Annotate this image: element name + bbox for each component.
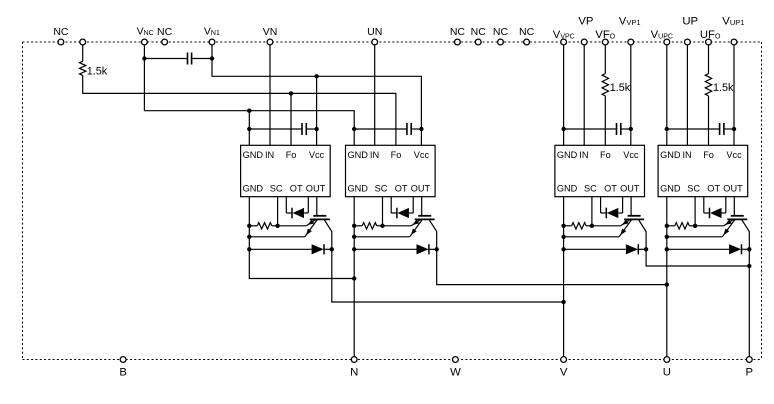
- op-amp U3 gate driver IC: [555, 145, 645, 196]
- svg-text:NC: NC: [493, 26, 509, 38]
- node collector junction Q4: [747, 247, 751, 251]
- svg-text:U: U: [663, 367, 671, 379]
- terminal VVPC: [561, 39, 567, 45]
- node junction GND4 at C5 row: [665, 127, 669, 131]
- transistor Q2 IGBT: [418, 215, 431, 217]
- module outline dotted border bottom: [23, 359, 762, 361]
- wire Q4 collector to terminal P: [748, 249, 750, 359]
- svg-text:VN: VN: [263, 26, 278, 38]
- terminal NC: [58, 39, 64, 45]
- resistor R-sense Q2: [354, 225, 362, 227]
- wire SC pin drop U2: [382, 197, 384, 226]
- wire R3 to Fo4: [708, 96, 710, 145]
- op-amp U1 gate driver IC: [241, 145, 331, 196]
- node rail1 at sense row: [247, 224, 251, 228]
- resistor R2 1.5k: [602, 74, 608, 96]
- wire OUT pin to gate Q1: [316, 197, 318, 216]
- terminal VN1: [209, 39, 215, 45]
- svg-text:B: B: [119, 367, 127, 379]
- wire VUPC to GND4: [666, 42, 668, 145]
- terminal V: [561, 357, 567, 363]
- node rail3 at diode row: [561, 247, 565, 251]
- node junction GND1 at C2 row: [247, 127, 251, 131]
- terminal UFO: [706, 39, 712, 45]
- resistor R1 1.5k: [80, 61, 86, 75]
- node SC junction U3: [590, 224, 594, 228]
- wire Q2 collector to U column: [437, 249, 667, 284]
- svg-text:1.5k: 1.5k: [610, 82, 631, 94]
- node rail2 at diode row: [352, 247, 356, 251]
- node rail4 at diode row: [665, 247, 669, 251]
- svg-text:IN: IN: [265, 150, 274, 160]
- svg-text:GND: GND: [660, 150, 681, 160]
- svg-text:P: P: [746, 367, 754, 379]
- terminal VN: [267, 39, 273, 45]
- terminal NC 6: [524, 39, 530, 45]
- svg-text:W: W: [450, 367, 461, 379]
- resistor R-sense Q3: [564, 225, 572, 227]
- terminal B: [120, 357, 126, 363]
- node junction rail1 to N column: [352, 276, 356, 280]
- module outline dotted border right: [761, 42, 763, 360]
- node junction Q3 collector at P column: [747, 264, 751, 268]
- svg-text:GND: GND: [660, 184, 681, 194]
- diode D-FW Q2: [354, 248, 416, 250]
- node rail4 at emitter row: [665, 235, 669, 239]
- terminal UP: [685, 39, 691, 45]
- transistor Q3 IGBT: [628, 215, 641, 217]
- svg-text:IN: IN: [370, 150, 379, 160]
- module outline dotted border top: [23, 41, 762, 43]
- wire Vcc1 pin drop: [316, 76, 318, 145]
- wire SC pin drop U1: [277, 197, 279, 226]
- svg-text:VP: VP: [578, 16, 593, 28]
- svg-text:SC: SC: [270, 184, 283, 194]
- terminal U: [664, 357, 670, 363]
- diode D-FW Q1: [249, 248, 311, 250]
- wire emitter row Q2: [354, 236, 410, 238]
- wire U3 emitter rail down to terminal V: [563, 197, 565, 360]
- wire sense row to emitter arrow Q4: [695, 225, 724, 227]
- diode D-OT U3: [600, 197, 602, 213]
- svg-text:Fo: Fo: [600, 150, 611, 160]
- svg-text:OT: OT: [395, 184, 408, 194]
- node rail1 at emitter row: [247, 235, 251, 239]
- terminal NC 4: [475, 39, 481, 45]
- node junction H3 at Fo1: [289, 91, 293, 95]
- svg-text:NC: NC: [519, 26, 535, 38]
- wire VN1 vertical and H2 to Vcc2: [212, 42, 421, 145]
- svg-text:Fo: Fo: [286, 150, 297, 160]
- resistor R-sense Q4: [667, 225, 675, 227]
- wire SC pin drop U4: [694, 197, 696, 226]
- svg-text:UN: UN: [367, 26, 382, 38]
- capacitor C4 (GND3-Vcc3): [564, 128, 616, 130]
- node junction H2 at Vcc1: [314, 74, 318, 78]
- svg-text:IN: IN: [683, 150, 692, 160]
- node junction Vcc4 at C5 row: [732, 127, 736, 131]
- wire U4 emitter rail down to terminal U: [666, 197, 668, 360]
- wire UP to IN4: [686, 42, 688, 145]
- diode D-OT U4: [703, 197, 705, 213]
- diode D-FW Q4: [667, 248, 729, 250]
- terminal VVP1: [628, 39, 634, 45]
- terminal P: [746, 357, 752, 363]
- wire Q1 collector to V column: [332, 249, 564, 302]
- terminal N: [351, 357, 357, 363]
- svg-text:SC: SC: [584, 184, 597, 194]
- wire VVP1 to Vcc3: [630, 42, 632, 145]
- node junction Vcc1 at C2 row: [314, 127, 318, 131]
- terminal W: [453, 357, 459, 363]
- wire sense row to emitter arrow Q1: [278, 225, 307, 227]
- svg-text:GND: GND: [557, 184, 578, 194]
- terminal NC 5: [498, 39, 504, 45]
- wire resistor-terminal to R1: [82, 42, 84, 61]
- terminal VUPC: [664, 39, 670, 45]
- svg-text:UP: UP: [682, 16, 698, 28]
- wire R1 to net FO-N (H3 horizontal): [83, 75, 396, 145]
- node junction Q2 collector at U column: [665, 282, 669, 286]
- node rail2 at emitter row: [352, 235, 356, 239]
- svg-text:IN: IN: [579, 150, 588, 160]
- node rail4 at sense row: [665, 224, 669, 228]
- node junction H4 at GND1: [247, 109, 251, 113]
- svg-text:OT: OT: [707, 184, 720, 194]
- node SC junction U4: [693, 224, 697, 228]
- node rail1 at diode row: [247, 247, 251, 251]
- node collector junction Q2: [435, 247, 439, 251]
- svg-text:Vcc: Vcc: [726, 150, 742, 160]
- svg-text:SC: SC: [687, 184, 700, 194]
- svg-text:Vcc: Vcc: [623, 150, 639, 160]
- svg-text:GND: GND: [243, 150, 264, 160]
- svg-text:1.5k: 1.5k: [87, 66, 108, 78]
- svg-text:OUT: OUT: [411, 184, 431, 194]
- node SC junction U2: [380, 224, 384, 228]
- resistor R-sense Q1: [249, 225, 257, 227]
- svg-text:N: N: [350, 367, 358, 379]
- svg-text:NC: NC: [53, 26, 69, 38]
- capacitor C5 (GND4-Vcc4): [667, 128, 719, 130]
- wire GND1 pin drop: [248, 111, 250, 146]
- svg-text:NC: NC: [157, 26, 173, 38]
- terminal VFO: [602, 39, 608, 45]
- svg-text:VVP1: VVP1: [619, 16, 641, 28]
- svg-text:Fo: Fo: [703, 150, 714, 160]
- transistor Q4 IGBT: [731, 215, 744, 217]
- svg-text:NC: NC: [450, 26, 466, 38]
- node junction GND3 at C4 row: [561, 127, 565, 131]
- svg-text:OT: OT: [290, 184, 303, 194]
- wire VN input to IN1: [269, 42, 271, 145]
- wire VP to IN3: [583, 42, 585, 145]
- wire H4 VNC to GND2: [144, 111, 354, 146]
- wire emitter row Q4: [667, 236, 723, 238]
- module outline dotted border left: [22, 42, 24, 360]
- op-amp U4 gate driver IC: [658, 145, 748, 196]
- wire Q3 collector to P column: [646, 249, 749, 266]
- diode D-OT U2: [390, 197, 392, 213]
- wire VVPC to GND3: [563, 42, 565, 145]
- terminal NC 2: [162, 39, 168, 45]
- svg-text:Vcc: Vcc: [414, 150, 430, 160]
- svg-text:GND: GND: [557, 150, 578, 160]
- node rail3 at sense row: [561, 224, 565, 228]
- svg-text:1.5k: 1.5k: [713, 82, 734, 94]
- node collector junction Q3: [644, 247, 648, 251]
- wire VUP1 to Vcc4: [733, 42, 735, 145]
- wire sense row to emitter arrow Q2: [383, 225, 412, 227]
- wire sense row to emitter arrow Q3: [592, 225, 621, 227]
- capacitor C1 (VNC-VN1): [144, 58, 186, 60]
- diode D-OT U1: [285, 197, 287, 213]
- svg-text:SC: SC: [375, 184, 388, 194]
- node junction Vcc2 at C3 row: [419, 127, 423, 131]
- svg-text:Fo: Fo: [391, 150, 402, 160]
- wire OUT pin to gate Q2: [421, 197, 423, 216]
- svg-text:OUT: OUT: [306, 184, 326, 194]
- terminal NC 3: [455, 39, 461, 45]
- wire U2 emitter rail down to terminal N: [353, 197, 355, 360]
- terminal R1 feed: [80, 39, 86, 45]
- node collector junction Q1: [330, 247, 334, 251]
- node junction GND2 at C3 row: [352, 127, 356, 131]
- wire emitter row Q1: [249, 236, 304, 238]
- node junction Q1 collector at V column: [561, 300, 565, 304]
- svg-text:NC: NC: [471, 26, 487, 38]
- wire SC pin drop U3: [591, 197, 593, 226]
- svg-text:OUT: OUT: [620, 184, 640, 194]
- capacitor C2 (GND1-Vcc1): [249, 128, 301, 130]
- node rail3 at emitter row: [561, 235, 565, 239]
- svg-text:V: V: [560, 367, 568, 379]
- diode D-FW Q3: [564, 248, 626, 250]
- wire OUT pin to gate Q3: [630, 197, 632, 216]
- svg-text:OT: OT: [604, 184, 617, 194]
- resistor R3 1.5k: [705, 74, 711, 96]
- wire UN input to IN2: [374, 42, 376, 145]
- terminal VUP1: [731, 39, 737, 45]
- op-amp U2 gate driver IC: [346, 145, 436, 196]
- wire UFO to R3: [708, 42, 710, 74]
- node junction Vcc3 at C4 row: [629, 127, 633, 131]
- svg-text:GND: GND: [348, 150, 369, 160]
- wire Fo1 pin drop: [290, 93, 292, 145]
- wire VNC vertical: [143, 42, 145, 111]
- svg-text:GND: GND: [348, 184, 369, 194]
- node junction VNC at C1: [142, 56, 146, 60]
- wire R2 to Fo3: [604, 96, 606, 145]
- svg-text:VUP1: VUP1: [722, 16, 744, 28]
- capacitor C3 (GND2-Vcc2): [354, 128, 406, 130]
- svg-text:OUT: OUT: [723, 184, 743, 194]
- node rail2 at sense row: [352, 224, 356, 228]
- wire U1 emitter rail down and to N column: [249, 197, 354, 279]
- node SC junction U1: [275, 224, 279, 228]
- transistor Q1 IGBT: [313, 215, 326, 217]
- node junction C1 at VN1: [210, 56, 214, 60]
- wire emitter row Q3: [564, 236, 620, 238]
- wire VFO to R2: [604, 42, 606, 74]
- terminal VNC: [142, 39, 148, 45]
- svg-text:Vcc: Vcc: [309, 150, 325, 160]
- terminal UN: [372, 39, 378, 45]
- wire OUT pin to gate Q4: [733, 197, 735, 216]
- svg-text:GND: GND: [243, 184, 264, 194]
- terminal VP: [581, 39, 587, 45]
